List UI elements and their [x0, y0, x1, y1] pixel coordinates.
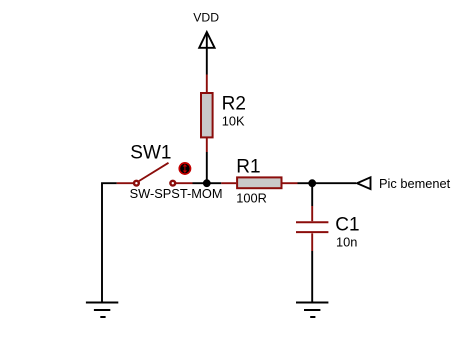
- ground left: [86, 303, 118, 318]
- power symbol VDD: [199, 32, 214, 75]
- wire C1 to ground: [311, 251, 313, 303]
- node B junction: [308, 179, 316, 187]
- ground right: [296, 303, 328, 318]
- svg-text:10n: 10n: [336, 235, 357, 250]
- svg-text:100R: 100R: [236, 191, 267, 206]
- capacitor C1: [296, 222, 328, 232]
- resistor R2: [201, 93, 213, 137]
- C1 bottom lead: [311, 233, 313, 251]
- wire node B down: [311, 183, 313, 206]
- svg-text:Pic bemenet: Pic bemenet: [379, 176, 451, 191]
- wire R2 bottom lead: [206, 138, 208, 152]
- R1 left lead: [221, 182, 236, 184]
- svg-text:R2: R2: [222, 94, 246, 115]
- pin 2 circle: [170, 181, 175, 186]
- wire R2 top lead: [206, 75, 208, 93]
- R1 right lead: [283, 182, 298, 184]
- lever: [139, 163, 169, 181]
- pin 1 lead: [117, 182, 133, 184]
- wire node A to R1: [207, 182, 222, 184]
- wire left branch: [102, 183, 117, 302]
- svg-text:10K: 10K: [222, 113, 245, 128]
- switch SW1: [117, 163, 193, 186]
- wire R1 to node B: [298, 182, 313, 184]
- terminal Pic bemenet: [357, 177, 371, 189]
- wire R2 to node A: [206, 152, 208, 183]
- pin 1 circle: [134, 181, 139, 186]
- node A junction: [203, 179, 211, 187]
- svg-text:VDD: VDD: [193, 11, 219, 25]
- svg-text:SW1: SW1: [130, 143, 171, 164]
- svg-text:C1: C1: [335, 214, 359, 235]
- wire node B to terminal: [312, 182, 356, 184]
- pin 2 lead: [176, 182, 193, 184]
- wire SW1 to node A: [193, 182, 207, 184]
- actuator icon SW1: [179, 163, 190, 174]
- svg-text:SW-SPST-MOM: SW-SPST-MOM: [130, 186, 223, 201]
- svg-text:R1: R1: [236, 156, 260, 177]
- resistor R1: [237, 177, 281, 188]
- C1 top lead: [311, 206, 313, 221]
